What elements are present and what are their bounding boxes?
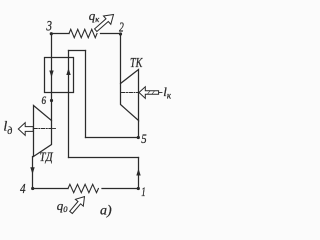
svg-text:qк: qк — [89, 8, 101, 24]
svg-text:lк: lк — [163, 84, 171, 101]
svg-text:а): а) — [100, 204, 112, 219]
expander TD body — [34, 106, 52, 157]
node 1 — [137, 187, 140, 190]
svg-text:2: 2 — [119, 19, 124, 34]
flow arrow up on node1 riser — [136, 169, 140, 176]
dash after lk arrow — [159, 92, 162, 94]
expander shaft axis (dash-dot) — [34, 128, 52, 130]
wire node5 left — [86, 137, 139, 139]
wire riser node1 up — [138, 158, 140, 189]
node 4 — [31, 187, 34, 190]
work arrow lk (hollow, pointing left into compressor) — [139, 87, 159, 99]
wire node4 up to expander — [32, 157, 34, 189]
svg-text:1: 1 — [141, 184, 146, 199]
hatch in lk arrow shaft — [148, 91, 155, 94]
wire evaporator to node1 — [102, 188, 139, 190]
wire node2 down to compressor inlet — [120, 34, 122, 84]
condenser coil qk (zigzag) — [69, 29, 97, 37]
dash-dot stub right of expander axis — [53, 128, 56, 130]
svg-text:ТД: ТД — [40, 149, 54, 164]
compressor shaft axis (dash-dot) — [122, 92, 139, 94]
wire node3 to condenser — [52, 33, 70, 35]
wire up at x=85.5 — [85, 51, 87, 138]
svg-text:lд: lд — [3, 120, 12, 138]
svg-text:3: 3 — [46, 19, 52, 35]
wire compressor to node5 — [138, 121, 140, 138]
svg-text:ТК: ТК — [130, 56, 143, 71]
flow arrow up inside regenerator cold stream — [66, 68, 70, 75]
node 2 — [119, 32, 122, 35]
svg-text:6: 6 — [42, 95, 47, 107]
node 3 — [50, 32, 53, 35]
svg-text:q0: q0 — [57, 198, 69, 214]
flow arrow down inside regenerator hot stream — [49, 71, 53, 78]
heat arrow q0 (hollow, up-right) — [70, 197, 85, 214]
wire condenser to node2 — [101, 33, 121, 35]
svg-text:5: 5 — [141, 131, 147, 146]
compressor TK body — [121, 70, 139, 121]
wire y=157.5 to node1 riser — [69, 157, 139, 159]
regenerator rectangle — [45, 58, 74, 93]
evaporator coil q0 (zigzag) — [68, 184, 98, 192]
work arrow ld (hollow, pointing left out of expander) — [18, 123, 33, 136]
wire node3 down through regenerator to expander (node6) — [51, 34, 53, 121]
wire node4 right to evaporator — [33, 188, 69, 190]
svg-text:4: 4 — [20, 182, 26, 197]
node 5 — [137, 136, 140, 139]
node 6 — [50, 99, 53, 102]
flow arrow down on expander outlet wire — [30, 167, 34, 174]
heat arrow qk (hollow, up-right) — [95, 15, 114, 32]
wire regenerator cold stream vertical — [68, 51, 70, 158]
wire left at y=50.5 — [69, 50, 86, 52]
